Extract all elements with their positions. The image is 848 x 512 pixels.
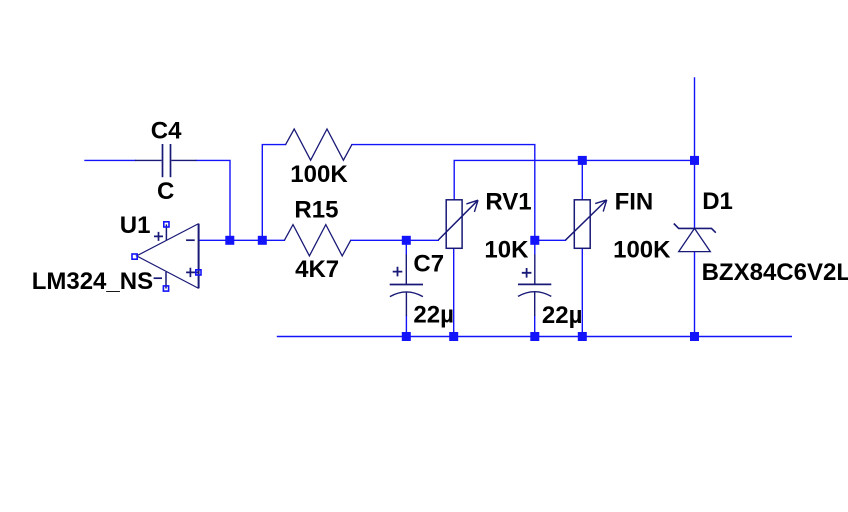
- svg-text:C7: C7: [413, 251, 444, 278]
- svg-text:100K: 100K: [613, 236, 671, 263]
- svg-text:22µ: 22µ: [413, 301, 454, 328]
- svg-text:R15: R15: [294, 197, 338, 224]
- svg-text:22µ: 22µ: [542, 302, 583, 329]
- svg-text:C: C: [157, 178, 174, 205]
- svg-text:FIN: FIN: [615, 188, 654, 215]
- svg-text:10K: 10K: [484, 236, 529, 263]
- svg-text:U1: U1: [120, 212, 151, 239]
- svg-text:BZX84C6V2L: BZX84C6V2L: [702, 259, 848, 286]
- svg-text:LM324_NS: LM324_NS: [32, 268, 153, 295]
- svg-text:RV1: RV1: [485, 188, 531, 215]
- svg-text:D1: D1: [702, 188, 733, 215]
- svg-text:100K: 100K: [290, 161, 348, 188]
- svg-text:C4: C4: [151, 118, 182, 145]
- svg-text:4K7: 4K7: [295, 256, 339, 283]
